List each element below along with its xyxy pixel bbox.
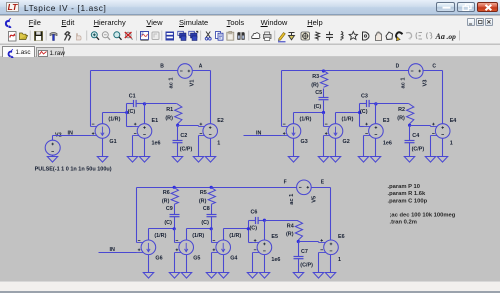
wire R6 to C9: [174, 205, 176, 215]
toolbar icon rotate: [427, 33, 432, 40]
svg-text:.op: .op: [447, 32, 457, 41]
wire to R2: [376, 103, 409, 105]
wire G5 output up: [186, 229, 188, 241]
wire G1 output bottom: [102, 139, 104, 157]
voltage source V1: [178, 64, 193, 79]
ground under E6 output: [325, 273, 335, 279]
minimize button: [436, 2, 455, 13]
wire net F: feedback top: [137, 187, 297, 189]
svg-text:.param R 1.6k: .param R 1.6k: [388, 191, 426, 197]
junction R3C5 node: [322, 111, 325, 114]
wire C6 left node vertical: [248, 221, 250, 243]
ground under G5 output: [181, 273, 191, 279]
toolbar icon tile windows: [189, 31, 198, 40]
svg-text:G3: G3: [301, 139, 308, 145]
VCVS source E5: [253, 239, 272, 255]
svg-text:C3: C3: [361, 93, 368, 99]
ground under G4 control: [206, 273, 216, 279]
maximize button: [457, 2, 476, 13]
VCCS current source G4: [212, 240, 231, 255]
ground under E4 output: [437, 157, 447, 163]
capacitor C5: [319, 98, 329, 100]
toolbar icon copy bitmap: [252, 33, 260, 39]
junction R6C9 node: [173, 227, 176, 230]
wire V2 bottom: [52, 156, 54, 157]
wire feedback down to G6 - input: [136, 188, 138, 243]
wire net B: G1 feedback to V1: [91, 70, 178, 72]
svg-text:(R): (R): [397, 115, 405, 121]
svg-text:C6: C6: [251, 210, 258, 216]
ground under E3 control: [358, 157, 368, 163]
junction R5C8 node: [210, 227, 213, 230]
VCVS source E2: [199, 123, 218, 139]
document tabs: [0, 45, 500, 57]
wire E5 + input to ground: [252, 253, 254, 273]
wire G2 output bottom: [335, 139, 337, 157]
wire to E2 + input: [178, 125, 199, 127]
ground under C2: [172, 157, 182, 163]
svg-text:G5: G5: [193, 255, 200, 261]
wire G5 output to R5C8 node: [187, 228, 212, 230]
svg-text:E5: E5: [271, 234, 278, 240]
svg-text:(R): (R): [286, 232, 294, 238]
svg-text:C5: C5: [315, 90, 322, 96]
ground under E1 control: [127, 157, 137, 163]
capacitor C9: [170, 215, 180, 217]
toolbar icon cascade windows: [178, 31, 186, 40]
toolbar icon waveform pane: [141, 32, 149, 42]
wire R5 to C8: [211, 205, 213, 215]
wire net IN to G3 + input: [244, 135, 282, 137]
svg-text:R1: R1: [166, 107, 173, 113]
toolbar icon print: [264, 32, 272, 41]
wire R4 bottom: [298, 241, 300, 242]
toolbar icon capacitor: [326, 32, 333, 41]
wire G3 output up: [293, 113, 295, 124]
active tab 1.asc: [2, 46, 35, 58]
svg-text:(C): (C): [164, 220, 172, 226]
toolbar icon label net: [301, 32, 310, 40]
wire E3 output bottom: [375, 139, 377, 157]
toolbar icon zoom extents: [114, 32, 122, 40]
wire to E3 - input: [360, 126, 364, 128]
svg-text:(C): (C): [250, 225, 258, 231]
svg-text:ac 1: ac 1: [401, 77, 407, 88]
svg-text:(1/R): (1/R): [108, 117, 120, 123]
wire G3 output bottom: [293, 139, 295, 157]
ground under E4 control: [425, 157, 435, 163]
svg-text:C: C: [432, 63, 436, 69]
wire E1 output bottom: [144, 139, 146, 157]
ground under C7: [293, 273, 303, 279]
toolbar icon inductor: [341, 32, 343, 41]
svg-text:B: B: [160, 63, 164, 69]
svg-text:(C): (C): [201, 220, 209, 226]
toolbar icon drag: [386, 32, 393, 40]
wire net E vertical: [330, 188, 332, 241]
wire C3 left lead: [360, 103, 367, 105]
status bar: [0, 281, 500, 291]
wire C7 bottom: [298, 259, 300, 273]
svg-text:E: E: [321, 180, 325, 186]
svg-text:(C/P): (C/P): [180, 146, 193, 152]
toolbar icon paste: [227, 31, 234, 40]
svg-text:1: 1: [450, 141, 453, 147]
wire E4 output bottom: [442, 139, 444, 157]
svg-text:G6: G6: [155, 255, 162, 261]
wire net C vertical: [442, 71, 444, 124]
svg-text:(C): (C): [314, 104, 322, 110]
wire jog E6 + input: [318, 242, 320, 243]
svg-text:E3: E3: [383, 118, 390, 124]
toolbar icon run: [65, 32, 71, 41]
ground under G4 output: [218, 273, 228, 279]
wire jog E2 + input: [198, 126, 200, 127]
svg-text:C7: C7: [301, 249, 308, 255]
toolbar: [0, 29, 500, 44]
wire net IN to G1 + input: [53, 135, 91, 137]
toolbar icon zoom fit: [125, 32, 133, 40]
svg-text:C4: C4: [412, 133, 419, 139]
toolbar icon zoom back: [102, 32, 110, 40]
junction R4 C7 node: [297, 240, 300, 243]
VCCS current source G1: [91, 124, 110, 139]
svg-text:IN: IN: [256, 131, 261, 137]
toolbar icon draw wire: [278, 33, 286, 42]
VCCS current source G5: [175, 240, 194, 255]
wire net C: V3 to E4: [424, 70, 443, 72]
svg-text:1e6: 1e6: [271, 257, 280, 263]
voltage source V2: [45, 140, 60, 155]
wire C2 bottom: [177, 143, 179, 157]
toolbar icon undo: [396, 32, 402, 41]
svg-text:IN: IN: [110, 247, 115, 253]
svg-text:.param P 10: .param P 10: [388, 184, 420, 190]
wire C3 right lead: [369, 103, 376, 105]
wire net E: V5 to E6: [312, 187, 331, 189]
ground under E3 output: [370, 157, 380, 163]
VCVS source E3: [364, 123, 384, 139]
svg-text:V3: V3: [423, 80, 429, 87]
VCCS current source G3: [282, 124, 301, 139]
svg-text:A: A: [199, 63, 203, 69]
svg-text:ac 1: ac 1: [169, 77, 175, 88]
junction C1 left node: [125, 111, 128, 114]
wire G3 output to R3C5 node: [294, 112, 324, 114]
junction C6 right node: [263, 219, 266, 222]
junction C1 right node: [143, 102, 146, 105]
svg-text:Aa: Aa: [435, 32, 445, 41]
VCCS current source G6: [137, 240, 156, 255]
toolbar icon zoom in: [91, 32, 99, 40]
ground under G6: [143, 273, 153, 279]
ground under G1: [97, 157, 107, 163]
svg-text:1: 1: [338, 257, 341, 263]
ground under E2 control: [193, 157, 203, 163]
svg-text:.param C 100p: .param C 100p: [388, 198, 428, 204]
voltage source V3: [409, 64, 424, 79]
wire G2 + input to ground: [323, 136, 325, 157]
wire R2 bottom: [409, 124, 411, 126]
toolbar icon new schematic: [9, 32, 17, 42]
wire C1 left node vertical: [126, 104, 128, 127]
wire down to G2 - input: [323, 113, 325, 127]
wire C8 bottom: [211, 217, 213, 229]
svg-text:C8: C8: [203, 206, 210, 212]
svg-text:(C/P): (C/P): [300, 263, 313, 269]
capacitor C4: [405, 141, 415, 143]
LTspice logo: [6, 2, 19, 12]
wire G6 output to R6C9 node: [149, 228, 175, 230]
svg-text:.tran 0.2m: .tran 0.2m: [390, 220, 417, 226]
VCCS current source G2: [324, 124, 343, 139]
wire C1 left lead: [127, 103, 134, 105]
toolbar icon open: [20, 33, 28, 40]
wire E5 output bottom: [264, 255, 266, 273]
ground under G3: [288, 157, 298, 163]
voltage source V5: [297, 180, 312, 195]
svg-text:IN: IN: [68, 131, 73, 137]
wire C5 bottom: [323, 101, 325, 113]
svg-text:R3: R3: [312, 74, 319, 80]
wire feedback down to G1 - input: [90, 71, 92, 127]
toolbar icon control panel: [50, 33, 57, 41]
app icon: [2, 17, 13, 28]
resistor R3: [321, 71, 328, 88]
junction R2 C4 node: [408, 124, 411, 127]
svg-text:(1/R): (1/R): [229, 233, 241, 239]
wire G2 output to C3 left node: [336, 112, 360, 114]
svg-text:E2: E2: [217, 118, 224, 124]
svg-text:1e6: 1e6: [383, 141, 392, 147]
wire down to C4: [409, 126, 411, 141]
svg-text:C2: C2: [180, 133, 187, 139]
wire C3 left node vertical: [359, 104, 361, 127]
capacitor C3: [367, 100, 370, 107]
resistor R2: [407, 104, 414, 124]
junction C3 left node: [358, 111, 361, 114]
capacitor C7: [294, 257, 304, 259]
wire G5 + input to ground: [174, 253, 176, 273]
wire jog E4 + input: [430, 126, 432, 127]
svg-text:1e6: 1e6: [152, 141, 161, 147]
close button: [477, 2, 499, 13]
toolbar icon place ground: [289, 33, 295, 40]
ground under C4: [404, 157, 414, 163]
svg-text:PULSE(-1 1 0 1n 1n 50u 100u): PULSE(-1 1 0 1n 1n 50u 100u): [35, 167, 112, 173]
wire R3 to C5: [323, 89, 325, 98]
ground under G2 control: [318, 157, 328, 163]
svg-text:(C): (C): [128, 109, 136, 115]
capacitor C1: [134, 100, 137, 107]
wire to E1 - input: [127, 126, 133, 128]
wire net A vertical: [210, 71, 212, 124]
wire down to G5 - input: [174, 229, 176, 243]
toolbar icon component: [363, 32, 370, 40]
wire C6 right lead: [259, 220, 265, 222]
wire to E6 + input: [299, 241, 319, 243]
svg-text:G2: G2: [343, 139, 350, 145]
svg-text:(R): (R): [311, 82, 319, 88]
svg-text:E4: E4: [450, 118, 457, 124]
toolbar icon back annotate: [152, 32, 159, 40]
wire down to E1 output top: [144, 104, 146, 124]
toolbar icon mirror: [416, 33, 422, 40]
ground under E6 control: [313, 273, 323, 279]
svg-text:D: D: [396, 63, 400, 69]
capacitor C2: [173, 141, 183, 143]
junction R1 C2 node: [176, 124, 179, 127]
svg-text:(C/P): (C/P): [412, 146, 425, 152]
svg-text:1: 1: [217, 141, 220, 147]
svg-text:(R): (R): [165, 115, 173, 121]
toolbar icon resistor: [316, 32, 320, 41]
ground under E5 control: [247, 273, 257, 279]
resistor R5: [208, 188, 215, 205]
wire E6 output bottom: [330, 255, 332, 273]
svg-text:R5: R5: [200, 190, 207, 196]
svg-text:ac 1: ac 1: [289, 194, 295, 205]
svg-text:R4: R4: [287, 223, 294, 229]
capacitor C6: [256, 217, 259, 224]
svg-text:F: F: [284, 180, 287, 186]
svg-text:E1: E1: [152, 118, 159, 124]
wire E2 - input to ground: [198, 136, 200, 157]
resistor R6: [171, 188, 178, 205]
toolbar icon text: [435, 32, 445, 41]
MDI child close button: [485, 18, 493, 26]
toolbar icon halt: [77, 34, 82, 40]
junction R3 top: [322, 69, 325, 72]
svg-text:V5: V5: [312, 196, 318, 203]
wire G2 output up: [335, 113, 337, 124]
resistor R4: [295, 221, 302, 241]
wire net A: V1 to E2 top: [193, 70, 211, 72]
wire E2 output bottom: [210, 139, 212, 157]
wire E6 - input to ground: [318, 253, 320, 273]
toolbar icon netlist: [166, 32, 175, 41]
svg-text:(1/R): (1/R): [342, 117, 354, 123]
resistor R1: [175, 104, 182, 124]
svg-text:(1/R): (1/R): [154, 233, 166, 239]
wire down to C7: [298, 242, 300, 257]
wire feedback down to G3 - input: [281, 71, 283, 127]
svg-text:G4: G4: [230, 255, 237, 261]
ground under G5 control: [169, 273, 179, 279]
wire E1 + input to ground: [132, 136, 134, 157]
wire C4 bottom: [409, 143, 411, 157]
wire G4 output to C6 left node: [224, 228, 249, 230]
wire E4 - input to ground: [430, 136, 432, 157]
toolbar icon redo: [406, 33, 412, 40]
ground under V2: [47, 157, 57, 163]
wire net D: feedback top: [282, 70, 409, 72]
wire G6 output bottom: [148, 255, 150, 273]
toolbar icon cut: [205, 32, 211, 41]
wire R1 bottom: [177, 124, 179, 126]
ground under E5 output: [259, 273, 269, 279]
toolbar icon find: [237, 32, 244, 40]
svg-text:;ac dec 100 10k 100meg: ;ac dec 100 10k 100meg: [390, 212, 456, 218]
ground under E2 output: [205, 157, 215, 163]
wire C1 right lead: [137, 103, 145, 105]
title bar: [0, 0, 500, 15]
wire G4 output up: [223, 229, 225, 241]
VCVS source E1: [133, 123, 152, 139]
VCVS source E4: [431, 123, 451, 139]
toolbar icon spice directive: [447, 32, 457, 41]
wire down to E3 output top: [375, 104, 377, 124]
VCVS source E6: [319, 239, 339, 255]
svg-text:(C): (C): [360, 109, 368, 115]
wire G6 output up: [148, 229, 150, 241]
wire G4 + input to ground: [211, 253, 213, 273]
wire to E4 + input: [410, 125, 431, 127]
junction C3 right node: [374, 102, 377, 105]
svg-text:(1/R): (1/R): [192, 233, 204, 239]
svg-text:G1: G1: [109, 139, 116, 145]
svg-text:C9: C9: [166, 206, 173, 212]
ground under G2 output: [330, 157, 340, 163]
wire G1 output up: [102, 113, 104, 124]
svg-text:V1: V1: [190, 80, 196, 87]
toolbar icon diode: [349, 32, 357, 40]
MDI child restore button: [476, 18, 484, 26]
junction C6 left node: [247, 227, 250, 230]
wire down to G4 - input: [211, 229, 213, 243]
wire G1 output to C1 left node: [103, 112, 127, 114]
wire E3 + input to ground: [363, 136, 365, 157]
svg-text:E6: E6: [338, 234, 345, 240]
toolbar icon save: [35, 32, 43, 41]
wire net IN to G6 + input: [99, 252, 137, 254]
svg-text:(R): (R): [199, 199, 207, 205]
wire G5 output bottom: [186, 255, 188, 273]
svg-text:R6: R6: [163, 190, 170, 196]
capacitor C8: [207, 215, 217, 217]
MDI child minimize button: [467, 18, 475, 26]
wire V2 top: [52, 136, 54, 141]
wire C9 bottom: [174, 217, 176, 229]
wire C6 left lead: [249, 220, 256, 222]
svg-text:C1: C1: [129, 93, 136, 99]
wire down to C2: [177, 126, 179, 141]
svg-text:R2: R2: [398, 107, 405, 113]
toolbar icon move: [376, 32, 382, 41]
wire to E5 - input: [249, 242, 253, 244]
ground under E1 output: [139, 157, 149, 163]
wire to R1: [145, 103, 177, 105]
junction R6 top: [173, 186, 176, 189]
toolbar icon copy: [216, 32, 224, 41]
menu bar: [0, 16, 500, 29]
wire down to E5 output top: [264, 221, 266, 241]
junction R5 top: [210, 186, 213, 189]
inactive tab 1.raw: [36, 47, 65, 57]
svg-text:(R): (R): [162, 199, 170, 205]
wire G4 output bottom: [223, 255, 225, 273]
wire to R4: [265, 220, 298, 222]
svg-text:(1/R): (1/R): [300, 117, 312, 123]
